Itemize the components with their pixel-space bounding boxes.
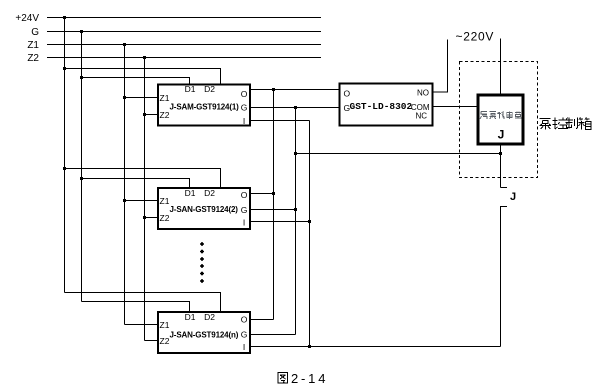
module U1 labels bbox=[160, 84, 248, 126]
wire: Z1 branch to U1 bbox=[125, 97, 159, 99]
junction U1 Z1 branch bbox=[123, 96, 126, 99]
junction Z2 tap bbox=[143, 56, 146, 59]
relay K1 value label (qi beng ji dian qi - fake CJK strokes) bbox=[480, 112, 521, 120]
svg-text:+24V: +24V bbox=[15, 13, 39, 24]
svg-text:O: O bbox=[241, 315, 248, 325]
wire: Un G to vertical B bbox=[251, 334, 296, 336]
wire: +24V vertical drop bbox=[64, 18, 66, 293]
svg-text:D1: D1 bbox=[185, 312, 196, 322]
junction Z1 tap bbox=[123, 43, 126, 46]
contact J lower bracket bbox=[501, 207, 508, 347]
svg-text:I: I bbox=[243, 116, 245, 126]
svg-text:2-14: 2-14 bbox=[291, 371, 328, 386]
wire: Z2 vertical drop bbox=[144, 58, 146, 341]
svg-text:Z2: Z2 bbox=[27, 53, 39, 64]
relay K1 (start-pump relay) box bbox=[478, 95, 523, 144]
svg-text:J-SAN-GST9124(n): J-SAN-GST9124(n) bbox=[170, 331, 239, 340]
module Un J-SAM-GST9124(n) box bbox=[158, 312, 250, 353]
svg-text:D2: D2 bbox=[204, 312, 215, 322]
wire: +24V branch to U2 D2 bbox=[65, 169, 221, 188]
wire: U2 G to vertical B bbox=[251, 209, 296, 211]
net Z2 bus line bbox=[47, 57, 321, 59]
junction U1 Z2 branch bbox=[143, 113, 146, 116]
char beng bbox=[540, 119, 552, 130]
wire: relay coil bottom to G net (feedback common) bbox=[296, 153, 501, 155]
svg-text:I: I bbox=[243, 342, 245, 352]
svg-text:Z1: Z1 bbox=[160, 93, 170, 103]
wire: U1 I to vertical C bbox=[251, 120, 310, 122]
wire: +24V branch to Un D2 bbox=[65, 293, 221, 312]
svg-text:NC: NC bbox=[415, 112, 427, 121]
wire: vertical C (I net) bbox=[309, 121, 311, 347]
junction U1 G / vertical B bbox=[294, 106, 297, 109]
char zhi bbox=[566, 118, 578, 130]
wire: Z2 branch to Un bbox=[145, 340, 159, 342]
svg-text:~220V: ~220V bbox=[456, 30, 495, 44]
junction relay bottom / G feedback bbox=[499, 152, 502, 155]
svg-text:D1: D1 bbox=[185, 188, 196, 198]
svg-text:Z1: Z1 bbox=[160, 196, 170, 206]
junction U2 Z1 branch bbox=[123, 199, 126, 202]
module Un labels bbox=[160, 312, 248, 352]
svg-text:O: O bbox=[241, 190, 248, 200]
svg-text:G: G bbox=[241, 205, 248, 215]
wire: Z2 branch to U1 bbox=[145, 114, 159, 116]
junction U2 Z2 branch bbox=[143, 216, 146, 219]
svg-text:Z2: Z2 bbox=[160, 213, 170, 223]
char kong bbox=[553, 118, 569, 130]
wire: 8302 NO to ~220V bbox=[434, 40, 448, 93]
svg-text:J-SAM-GST9124(1): J-SAM-GST9124(1) bbox=[170, 103, 240, 112]
net Z1 bus line bbox=[47, 44, 321, 46]
caption: figure number (tu - fake CJK) + 2-14 bbox=[278, 373, 288, 384]
wire: G branch to U1 D1 bbox=[82, 78, 190, 85]
pump control box label (beng kong zhi xiang - fake CJK strokes) bbox=[540, 118, 592, 130]
junction U2 G / vertical B bbox=[294, 208, 297, 211]
wire: Z1 branch to Un bbox=[125, 324, 159, 326]
wire: +24V branch to U1 D2 bbox=[65, 69, 221, 85]
wire: G branch to U2 D1 bbox=[82, 179, 190, 188]
svg-text:Z2: Z2 bbox=[160, 110, 170, 120]
wire: vertical A (O net) bbox=[273, 90, 275, 320]
svg-text:D1: D1 bbox=[185, 84, 196, 94]
wire: Un O to vertical A bbox=[251, 319, 274, 321]
module U4 GST-LD-8302 labels bbox=[344, 89, 430, 121]
junction U1 O / vertical A bbox=[272, 88, 275, 91]
wire: Z1 vertical drop bbox=[124, 45, 126, 325]
svg-text:D2: D2 bbox=[204, 188, 215, 198]
junction U2 D2 branch bbox=[63, 167, 66, 170]
junction U2 D1 branch bbox=[80, 177, 83, 180]
wire: U1 G to 8302 G bbox=[251, 107, 340, 109]
module U1 J-SAM-GST9124(1) box bbox=[158, 85, 250, 126]
svg-text:D2: D2 bbox=[204, 84, 215, 94]
svg-text:Z2: Z2 bbox=[160, 336, 170, 346]
svg-text:I: I bbox=[243, 218, 245, 228]
junction U1 D2 branch bbox=[63, 67, 66, 70]
junction +24V tap bbox=[63, 16, 66, 19]
svg-text:G: G bbox=[241, 103, 248, 113]
wire: U2 I to vertical C bbox=[251, 221, 310, 223]
svg-text:GST-LD-8302: GST-LD-8302 bbox=[350, 101, 413, 112]
module U4 GST-LD-8302 box bbox=[340, 84, 433, 126]
junction U2 O / vertical A bbox=[272, 192, 275, 195]
svg-text:G: G bbox=[241, 330, 248, 340]
svg-text:O: O bbox=[344, 89, 351, 99]
svg-text:O: O bbox=[241, 89, 248, 99]
ellipsis dots (more modules) bbox=[200, 242, 205, 284]
wire: ~220V to relay coil top bbox=[500, 39, 502, 95]
wire: G vertical drop bbox=[81, 32, 83, 302]
module U2 J-SAM-GST9124(2) box bbox=[158, 188, 250, 229]
char xiang bbox=[579, 118, 592, 130]
wire: Z1 branch to U2 bbox=[125, 200, 159, 202]
svg-text:G: G bbox=[31, 27, 39, 38]
junction feedback / vertical B bbox=[294, 152, 297, 155]
wire: Un I feedback line to contact J bbox=[251, 346, 501, 348]
svg-text:Z1: Z1 bbox=[27, 40, 39, 51]
pump control box (dashed) bbox=[460, 62, 538, 178]
wire: U1 O output to 8302 O bbox=[251, 89, 340, 91]
wire: 8302 COM to relay coil left bbox=[434, 106, 478, 108]
net +24V bus line bbox=[47, 17, 321, 19]
junction G tap bbox=[80, 30, 83, 33]
junction Un I / vertical C bbox=[308, 345, 311, 348]
svg-text:NO: NO bbox=[417, 89, 429, 98]
wire: Z2 branch to U2 bbox=[145, 217, 159, 219]
wire: vertical B (G net) bbox=[295, 108, 297, 335]
wire: relay coil bottom vertical bbox=[500, 146, 502, 188]
wire: G branch to Un D1 bbox=[82, 302, 190, 312]
junction U2 I / vertical C bbox=[308, 220, 311, 223]
svg-text:J: J bbox=[510, 191, 516, 203]
svg-text:J-SAN-GST9124(2): J-SAN-GST9124(2) bbox=[170, 205, 239, 214]
svg-text:J: J bbox=[498, 128, 505, 142]
module U2 labels bbox=[160, 188, 248, 228]
wire: U2 O to vertical A bbox=[251, 193, 274, 195]
net G bus line bbox=[47, 31, 321, 33]
contact J upper bracket bbox=[501, 187, 508, 189]
svg-text:Z1: Z1 bbox=[160, 320, 170, 330]
junction U1 D1 branch bbox=[80, 76, 83, 79]
